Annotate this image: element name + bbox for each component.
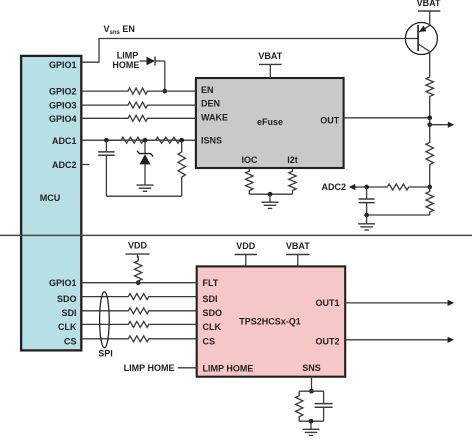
VBAT rail (transistor) bbox=[417, 0, 441, 23]
resistor R5 (ADC1 filter 2) bbox=[145, 137, 182, 143]
svg-text:VBAT: VBAT bbox=[258, 51, 282, 61]
resistor R8 (I2t) bbox=[289, 168, 296, 194]
resistor R14 (SDO-SDI) bbox=[82, 294, 197, 300]
svg-text:OUT: OUT bbox=[320, 116, 340, 126]
VBAT rail (eFuse) bbox=[258, 51, 282, 78]
diode D1 limp home bbox=[140, 56, 165, 65]
wire OUT bbox=[344, 117, 430, 119]
junction gnd rail bbox=[268, 192, 273, 197]
svg-text:VBAT: VBAT bbox=[417, 0, 441, 8]
svg-text:OUT2: OUT2 bbox=[315, 336, 339, 346]
resistor R16 (CLK-CLK) bbox=[82, 321, 197, 327]
svg-text:IOC: IOC bbox=[241, 155, 258, 165]
svg-text:I2t: I2t bbox=[287, 155, 298, 165]
capacitor C3 (SNS) bbox=[315, 391, 333, 421]
svg-text:OUT1: OUT1 bbox=[315, 298, 339, 308]
wire limp-home to EN line bbox=[164, 61, 166, 91]
node ADC1/C1 bbox=[104, 138, 109, 143]
resistor R1 (GPIO2-EN) bbox=[82, 88, 196, 94]
node ISNS/R6 bbox=[179, 138, 184, 143]
wire bottom rail ADC1 network bbox=[106, 195, 181, 197]
svg-text:LIMP HOME: LIMP HOME bbox=[203, 363, 254, 373]
svg-text:CS: CS bbox=[64, 336, 77, 346]
resistor R4 (ADC1 filter 1) bbox=[106, 137, 145, 143]
resistor R2 (GPIO3-DEN) bbox=[82, 102, 196, 108]
svg-text:MCU: MCU bbox=[40, 193, 61, 203]
svg-text:DEN: DEN bbox=[201, 99, 220, 109]
wire OUT1 arrow bbox=[345, 300, 454, 306]
wire OUT2 arrow bbox=[345, 337, 454, 343]
svg-text:SDI: SDI bbox=[61, 308, 76, 318]
junction OUT branch bbox=[427, 122, 432, 127]
junction C2 bottom bbox=[364, 213, 369, 218]
VDD rail (pullup) bbox=[126, 241, 150, 258]
svg-text:CLK: CLK bbox=[203, 322, 222, 332]
svg-text:GPIO2: GPIO2 bbox=[49, 87, 77, 97]
divider line between halves bbox=[0, 234, 472, 236]
svg-text:GPIO1: GPIO1 bbox=[49, 278, 77, 288]
svg-text:CLK: CLK bbox=[58, 322, 77, 332]
transistor Q1 (PNP) bbox=[405, 23, 437, 55]
ground (ADC2 filter) bbox=[358, 223, 375, 225]
svg-text:WAKE: WAKE bbox=[201, 112, 228, 122]
svg-text:VDD: VDD bbox=[128, 241, 148, 251]
resistor R17 (CS-CS) bbox=[82, 336, 197, 342]
wire limp home bbox=[178, 367, 197, 369]
junction FLT pullup bbox=[136, 280, 141, 285]
wire SNS top rail bbox=[299, 390, 323, 392]
eFuse U1 bbox=[196, 78, 344, 168]
VBAT rail (U2) bbox=[286, 241, 310, 266]
svg-text:GPIO3: GPIO3 bbox=[49, 101, 77, 111]
resistor R11 (ADC2 series) bbox=[367, 184, 430, 190]
junction OUT/collector bbox=[427, 115, 432, 120]
svg-text:GPIO4: GPIO4 bbox=[49, 114, 77, 124]
junction SNS top bbox=[309, 389, 314, 394]
ground (SNS) bbox=[303, 428, 320, 430]
resistor R10 (divider top) bbox=[426, 125, 433, 187]
resistor R7 (IOC) bbox=[246, 168, 253, 194]
svg-text:SDO: SDO bbox=[57, 294, 77, 304]
svg-text:ADC2: ADC2 bbox=[52, 160, 77, 170]
wire GPIO1-FLT bbox=[82, 282, 197, 284]
svg-text:eFuse: eFuse bbox=[257, 117, 283, 127]
svg-text:HOME: HOME bbox=[112, 60, 139, 70]
svg-text:SNS: SNS bbox=[302, 363, 321, 373]
svg-text:Vsns EN: Vsns EN bbox=[104, 24, 135, 36]
net Vsns EN label bbox=[104, 24, 135, 36]
svg-text:SPI: SPI bbox=[98, 349, 113, 359]
VDD rail (U2) bbox=[235, 241, 257, 266]
wire output arrow bbox=[430, 122, 455, 128]
MCU block bbox=[21, 56, 81, 351]
svg-text:SDO: SDO bbox=[203, 308, 223, 318]
LIMP HOME label (top) bbox=[112, 51, 139, 70]
svg-text:VBAT: VBAT bbox=[286, 241, 310, 251]
wire ADC2 stub bbox=[82, 164, 90, 166]
svg-text:ADC1: ADC1 bbox=[52, 136, 77, 146]
wire GPIO1 to transistor base bbox=[82, 39, 419, 63]
junction ADC2/C2 bbox=[364, 185, 369, 190]
node ADC1/D2 bbox=[143, 138, 148, 143]
capacitor C2 bbox=[359, 187, 375, 215]
zener diode D2 bbox=[137, 140, 153, 185]
junction EN/limp bbox=[162, 89, 167, 94]
resistor R3 (GPIO4-WAKE) bbox=[82, 115, 196, 121]
wire SNS bbox=[311, 377, 313, 392]
svg-text:CS: CS bbox=[203, 336, 216, 346]
resistor R12 (divider bottom) bbox=[426, 187, 433, 215]
svg-text:VDD: VDD bbox=[236, 241, 256, 251]
svg-text:EN: EN bbox=[201, 85, 214, 95]
resistor R6 (ISNS pulldown) bbox=[178, 140, 185, 196]
svg-text:LIMP HOME: LIMP HOME bbox=[124, 363, 175, 373]
LIMP HOME label (bottom) bbox=[124, 363, 175, 373]
SPI bundle ellipse bbox=[100, 292, 110, 348]
svg-text:ADC2: ADC2 bbox=[321, 182, 346, 192]
resistor R15 (SDI-SDO) bbox=[82, 308, 197, 314]
resistor R18 (SNS) bbox=[296, 391, 303, 421]
capacitor C1 bbox=[98, 140, 114, 196]
ground (zener) bbox=[137, 184, 154, 186]
resistor R13 (FLT pullup) bbox=[135, 256, 142, 283]
junction SNS bottom bbox=[309, 419, 314, 424]
junction divider mid bbox=[427, 185, 432, 190]
TPS2HCSx-Q1 U2 bbox=[197, 266, 346, 376]
svg-text:GPIO1: GPIO1 bbox=[49, 60, 77, 70]
wire ADC2 arrow bbox=[321, 182, 366, 192]
resistor R9 (collector) bbox=[426, 54, 433, 118]
svg-text:TPS2HCSx-Q1: TPS2HCSx-Q1 bbox=[239, 316, 301, 326]
wire ADC1-ISNS bbox=[82, 139, 196, 141]
svg-text:ISNS: ISNS bbox=[201, 136, 222, 146]
wire divider bottom rail bbox=[367, 214, 430, 216]
svg-text:FLT: FLT bbox=[203, 278, 219, 288]
ground (IOC/I2t) bbox=[262, 201, 279, 203]
svg-text:SDI: SDI bbox=[203, 294, 218, 304]
wire IOC-I2t rail bbox=[250, 193, 293, 195]
wire SNS bottom rail bbox=[299, 420, 323, 422]
